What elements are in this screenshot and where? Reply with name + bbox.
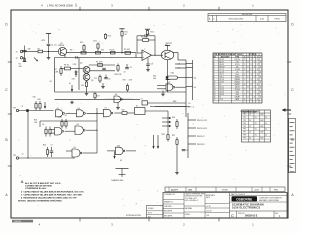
gate U7B — [51, 128, 76, 136]
resistor R6 horizontal — [61, 65, 83, 70]
svg-text:1-4: 1-4 — [188, 107, 191, 109]
svg-text:R19: R19 — [123, 79, 126, 81]
resistor R4 on bus — [110, 49, 116, 54]
sheet reference wire 2 — [150, 107, 191, 109]
svg-text:C2,C8: C2,C8 — [219, 71, 224, 73]
gate U5 — [56, 108, 77, 117]
svg-text:2V: 2V — [249, 137, 251, 139]
svg-text:5: 5 — [214, 69, 215, 71]
svg-text:R5 10K: R5 10K — [124, 49, 131, 51]
resistor R32 — [65, 115, 68, 129]
svg-text:TP1: TP1 — [243, 114, 246, 116]
svg-text:R2: R2 — [38, 48, 40, 50]
svg-text:8-1: 8-1 — [194, 87, 197, 89]
junction dot bus 3 — [94, 52, 96, 54]
wire Q1 emitter to loop bus — [64, 55, 66, 58]
svg-text:16: 16 — [214, 97, 216, 99]
diode CR1 — [72, 70, 78, 81]
svg-text:FINISH: FINISH — [185, 214, 190, 216]
svg-text:R27: R27 — [172, 135, 175, 137]
svg-text:1N914: 1N914 — [235, 76, 240, 78]
resistor R7 vertical left — [55, 66, 63, 76]
svg-text:C6: C6 — [151, 64, 153, 66]
resistor R31 — [59, 117, 64, 129]
svg-text:1MS: 1MS — [260, 114, 263, 116]
svg-text:74LS00: 74LS00 — [235, 89, 240, 91]
zone letters left — [5, 23, 8, 198]
svg-text:1K 5%: 1K 5% — [235, 64, 240, 66]
svg-text:PIN 28,29: PIN 28,29 — [197, 144, 205, 146]
signal arrows — [162, 117, 171, 127]
svg-text:6: 6 — [214, 71, 215, 73]
svg-text:Y1: Y1 — [141, 99, 143, 101]
svg-text:1MS: 1MS — [260, 120, 263, 122]
svg-text:SCALE: SCALE — [148, 207, 154, 210]
svg-text:7: 7 — [254, 92, 255, 94]
svg-text:3 CAPACITANCE VALUES ARE IN F: 3 CAPACITANCE VALUES ARE IN FARADS 100V,… — [21, 193, 82, 196]
svg-text:U7: U7 — [105, 107, 107, 109]
ground G2 — [70, 101, 74, 104]
wire R2 to Q1 — [49, 51, 59, 53]
svg-text:11: 11 — [22, 106, 24, 108]
svg-text:Q2: Q2 — [80, 62, 82, 64]
svg-text:SH 2: SH 2 — [148, 213, 152, 215]
svg-text:Q3: Q3 — [91, 80, 93, 82]
capacitor C2 on input — [22, 46, 31, 63]
svg-text:9: 9 — [251, 79, 252, 81]
ground at box bottom — [85, 92, 89, 95]
svg-text:CHASSIS GND: CHASSIS GND — [111, 179, 124, 182]
svg-text:3: 3 — [251, 89, 252, 91]
chassis ground symbol — [116, 169, 129, 178]
svg-text:R17: R17 — [97, 96, 100, 98]
svg-text:7: 7 — [214, 74, 215, 76]
svg-text:U6,U9: U6,U9 — [219, 94, 224, 96]
svg-text:1MS: 1MS — [260, 126, 263, 128]
svg-text:5V: 5V — [255, 123, 257, 125]
svg-text:11: 11 — [214, 84, 216, 86]
op-amp U1 — [142, 50, 152, 61]
svg-text:14: 14 — [214, 92, 216, 94]
zone letters right — [291, 23, 294, 198]
svg-text:R9: R9 — [95, 78, 97, 80]
svg-text:2 CAPACITANCE VALUES ARE IN M: 2 CAPACITANCE VALUES ARE IN MICROFARADS,… — [21, 190, 84, 193]
terminal TP1 — [13, 107, 19, 111]
svg-text:10: 10 — [124, 72, 126, 74]
connector bus vertical J3 — [187, 113, 189, 158]
resistor R23 — [34, 120, 47, 137]
svg-text:2V: 2V — [249, 120, 251, 122]
main signal bus wire — [66, 53, 136, 58]
connector branch 3 — [188, 136, 205, 138]
input jack J1 — [16, 50, 23, 53]
svg-text:7: 7 — [254, 76, 255, 78]
svg-text:REFERENCE DESIG: REFERENCE DESIG — [218, 54, 233, 56]
title block — [163, 193, 287, 219]
drawing border frame — [8, 7, 291, 222]
svg-text:C7: C7 — [51, 144, 53, 146]
resistor R21 vertical — [38, 99, 42, 111]
svg-text:50: 50 — [265, 135, 267, 137]
svg-text:50028-01-3: 50028-01-3 — [245, 215, 258, 218]
svg-text:8-4: 8-4 — [194, 78, 197, 80]
connector branch 2 — [188, 128, 207, 130]
svg-text:100: 100 — [153, 78, 156, 80]
svg-text:12: 12 — [214, 86, 216, 88]
ground below U2 — [161, 91, 165, 96]
svg-text:12: 12 — [22, 154, 24, 156]
lower bus wire — [55, 98, 141, 100]
connector tick 1 — [186, 63, 193, 65]
wire Q5 emitter down — [167, 60, 169, 71]
gate U10 — [107, 145, 136, 154]
svg-text:4: 4 — [254, 97, 255, 99]
svg-text:6: 6 — [251, 84, 252, 86]
source component for reference wires — [141, 99, 151, 105]
resistor R28 — [162, 133, 170, 142]
feedback loop wires — [55, 58, 187, 93]
auxiliary table — [242, 110, 271, 142]
resistor R24 — [42, 124, 51, 137]
capacitor C7 — [50, 144, 54, 157]
pin label 2-6 — [178, 64, 181, 66]
svg-text:P.M.N: P.M.N — [274, 18, 280, 20]
resistor R17 below loop — [94, 92, 100, 99]
svg-text:CR1,2: CR1,2 — [219, 76, 224, 78]
svg-text:13: 13 — [214, 89, 216, 91]
svg-text:OTHERWISE B+ ALL: OTHERWISE B+ ALL — [25, 187, 47, 190]
svg-text:5V: 5V — [255, 129, 257, 131]
lower feedback loop wire — [40, 108, 97, 153]
svg-text:U2,U3: U2,U3 — [219, 89, 224, 91]
svg-text:Q5: Q5 — [219, 84, 221, 86]
svg-text:7404: 7404 — [235, 92, 239, 94]
svg-text:REF: REF — [173, 101, 176, 103]
wire Q3 collector — [89, 70, 115, 72]
pin label 2-4 — [178, 68, 181, 70]
svg-text:R2,R7: R2,R7 — [219, 61, 224, 63]
svg-text:R8: R8 — [82, 85, 84, 87]
svg-text:U6: U6 — [78, 108, 80, 110]
sheet reference wire 1 — [150, 103, 191, 105]
svg-text:R31: R31 — [59, 117, 62, 119]
svg-text:Q1,Q4: Q1,Q4 — [219, 79, 224, 81]
svg-text:17: 17 — [214, 99, 216, 101]
svg-text:2V: 2V — [249, 132, 251, 134]
collector wire to connector — [173, 53, 187, 61]
svg-text:CR2: CR2 — [171, 73, 175, 75]
svg-text:LM741: LM741 — [235, 86, 240, 88]
junction dot bus 2 — [121, 52, 122, 53]
ground inside loop — [101, 83, 105, 88]
svg-text:4: 4 — [254, 66, 255, 68]
svg-text:TP6: TP6 — [243, 129, 246, 131]
svg-text:E: E — [257, 57, 258, 59]
svg-text:PIN 23,24,25: PIN 23,24,25 — [197, 128, 207, 130]
svg-text:REVISIONS: REVISIONS — [242, 14, 253, 16]
junction dot row1 — [96, 113, 97, 114]
diode CR2 indicator — [166, 71, 175, 92]
capacitor C10 marks — [102, 68, 106, 69]
svg-text:U4,U8: U4,U8 — [219, 92, 224, 94]
resistor R7b on wire — [96, 62, 103, 67]
wire R27 to ground — [176, 147, 178, 171]
svg-text:3: 3 — [251, 74, 252, 76]
svg-text:5V: 5V — [255, 117, 257, 119]
connector tick 3 — [186, 77, 193, 79]
svg-text:R15: R15 — [80, 42, 83, 44]
svg-text:TYPE: TYPE — [235, 57, 239, 59]
scale cells left of title block — [147, 206, 164, 219]
svg-text:10uF: 10uF — [235, 74, 239, 76]
drawing number row — [231, 211, 281, 218]
svg-text:NOTES: UNLESS OTHERWISE SPECIF: NOTES: UNLESS OTHERWISE SPECIFIED — [18, 201, 62, 203]
svg-text:2N2222: 2N2222 — [234, 81, 240, 83]
resistor R25 — [43, 144, 49, 157]
svg-text:C1 .01: C1 .01 — [51, 45, 57, 47]
gate U8 — [75, 124, 98, 134]
svg-text:Q2,Q3: Q2,Q3 — [219, 81, 224, 83]
svg-text:C8: C8 — [186, 150, 188, 152]
svg-text:J2: J2 — [16, 58, 18, 60]
connector rail B — [192, 60, 194, 100]
down arrow DA2 — [157, 135, 159, 149]
notes block — [18, 181, 84, 203]
svg-text:TP4: TP4 — [243, 123, 246, 125]
svg-text:9: 9 — [214, 79, 215, 81]
svg-text:R5,R9: R5,R9 — [219, 64, 224, 66]
svg-text:R22: R22 — [122, 110, 125, 112]
svg-text:R1,R4: R1,R4 — [219, 59, 224, 61]
svg-text:CHECKED: CHECKED — [164, 206, 173, 208]
svg-text:K1: K1 — [219, 97, 221, 99]
corner stamp — [12, 220, 33, 223]
svg-text:C: C — [251, 57, 252, 59]
svg-text:R13: R13 — [108, 36, 111, 38]
svg-text:3: 3 — [214, 64, 215, 66]
wire TP2 bus — [19, 157, 75, 159]
svg-text:OSBORNE: OSBORNE — [236, 198, 252, 202]
resistor R11 vertical — [119, 29, 127, 53]
capacitor C6 on wire — [22, 106, 29, 112]
arrow A2 — [44, 102, 46, 109]
svg-text:15: 15 — [214, 94, 216, 96]
zone numbers bottom — [39, 223, 255, 227]
ground G4 — [175, 171, 179, 174]
svg-text:5150 ELECTRONICS: 5150 ELECTRONICS — [232, 206, 260, 210]
svg-text:9: 9 — [251, 64, 252, 66]
capacitor C8 — [182, 150, 188, 153]
svg-text:PIN 26,27: PIN 26,27 — [197, 136, 205, 138]
svg-text:9: 9 — [251, 94, 252, 96]
resistor R13 with power bar — [145, 29, 154, 36]
connector tick 2 — [186, 67, 193, 69]
wire TP1 to U5 — [19, 110, 54, 112]
svg-text:1 2: 1 2 — [192, 106, 194, 108]
top margin document number label — [47, 4, 76, 8]
arrow at U10 input — [113, 152, 122, 162]
transistor Q5 — [161, 43, 174, 60]
ground below op-amp — [146, 65, 150, 71]
gate U7A — [104, 107, 123, 116]
svg-text:C9: C9 — [130, 67, 132, 69]
resistor R3a on bus — [70, 50, 86, 54]
ground below U4 — [116, 103, 120, 110]
svg-text:1: 1 — [214, 59, 215, 61]
drawing title text — [232, 203, 264, 210]
feedback capacitor C5 — [137, 33, 155, 37]
capacitor C6b below op-amp — [146, 58, 153, 66]
svg-text:TP7: TP7 — [243, 132, 246, 134]
capacitor C1 — [47, 44, 57, 51]
svg-text:F: F — [260, 57, 261, 59]
svg-text:U2: U2 — [168, 82, 170, 84]
reference designation table — [213, 53, 262, 103]
svg-text:2N2222: 2N2222 — [166, 43, 172, 45]
svg-text:TP1: TP1 — [13, 107, 16, 109]
svg-text:4 RESISTANCE VALUES ARE IN OH: 4 RESISTANCE VALUES ARE IN OHMS 1/4W, 5%… — [21, 196, 77, 199]
svg-text:.0050: .0050 — [254, 189, 260, 191]
resistor R27 — [172, 135, 178, 147]
svg-text:R6 1K: R6 1K — [64, 65, 70, 67]
svg-text:4: 4 — [214, 66, 215, 68]
svg-text:WT: WT — [148, 217, 151, 219]
svg-text:JA-1P1: JA-1P1 — [171, 188, 179, 191]
microfilm strip — [289, 119, 296, 173]
resistor R19 — [123, 79, 133, 92]
connector tick 4 — [186, 86, 193, 88]
feedback resistor R10 — [137, 36, 155, 55]
svg-text:R30 10K: R30 10K — [115, 74, 123, 76]
resistor R2 — [37, 48, 49, 53]
svg-text:3: 3 — [251, 59, 252, 61]
gate U9 — [66, 147, 97, 157]
transistor Q1 — [58, 43, 67, 56]
revision block — [208, 14, 286, 22]
input jack J2 — [16, 57, 25, 60]
svg-text:4-82: 4-82 — [260, 18, 264, 20]
svg-text:6: 6 — [251, 99, 252, 101]
svg-text:.05: .05 — [120, 160, 122, 162]
op-amp output wire — [152, 55, 163, 56]
resistor R3 on bus — [96, 49, 105, 54]
svg-text:7400: 7400 — [235, 94, 239, 96]
resistor R12b vertical — [80, 42, 85, 51]
wire Q2 collector — [89, 64, 115, 66]
svg-text:2N3904: 2N3904 — [58, 45, 64, 47]
svg-text:R13: R13 — [150, 32, 153, 34]
pin wire 1 — [175, 63, 186, 65]
svg-text:2V: 2V — [249, 114, 251, 116]
svg-text:1MS: 1MS — [260, 132, 263, 134]
svg-text:TP3: TP3 — [243, 120, 246, 122]
pin wire 2 — [175, 67, 186, 69]
svg-text:1 P/N | NO 04/08 C0000: 1 P/N | NO 04/08 C0000 — [47, 5, 74, 8]
svg-text:8: 8 — [214, 76, 215, 78]
svg-text:50: 50 — [265, 129, 267, 131]
svg-text:5V: 5V — [255, 135, 257, 137]
title block right section — [230, 193, 288, 211]
delay line DL1 row — [153, 75, 196, 80]
svg-text:R26: R26 — [172, 117, 175, 119]
junction dot bus 1 — [48, 51, 49, 52]
resistor R26 — [172, 117, 178, 129]
terminal TP2 — [13, 154, 23, 160]
svg-text:U4: U4 — [115, 94, 117, 96]
svg-text:CR1: CR1 — [72, 79, 76, 81]
connector branch 4 — [188, 144, 205, 146]
svg-text:1MS: 1MS — [260, 137, 263, 139]
svg-text:OSB-0111: OSB-0111 — [14, 221, 21, 223]
svg-text:05098: 05098 — [222, 189, 228, 191]
svg-text:C1,C4: C1,C4 — [219, 69, 224, 71]
svg-text:DIMENSIONS IN INCHES: DIMENSIONS IN INCHES — [185, 196, 203, 198]
svg-text:TP9: TP9 — [243, 137, 246, 139]
svg-text:U5: U5 — [57, 108, 59, 110]
svg-text:TP5: TP5 — [243, 126, 246, 128]
resistor R20 vertical — [33, 96, 38, 110]
svg-text:1-6: 1-6 — [188, 103, 191, 105]
svg-text:2N2907: 2N2907 — [234, 84, 240, 86]
svg-text:50: 50 — [265, 123, 267, 125]
wire J1 to R2 — [23, 51, 37, 53]
svg-text:C4: C4 — [108, 79, 110, 81]
resistor R12 vertical — [94, 41, 100, 52]
svg-text:PIN 20,21,22: PIN 20,21,22 — [197, 120, 207, 122]
svg-text:NOTED AS NOTED: NOTED AS NOTED — [126, 214, 142, 217]
svg-text:K1: K1 — [136, 106, 138, 108]
gate U2 — [157, 82, 196, 91]
svg-text:U1,U5: U1,U5 — [219, 86, 224, 88]
svg-text:4-12-82: 4-12-82 — [206, 210, 212, 212]
ground below input bus — [47, 52, 51, 60]
svg-text:R28: R28 — [162, 134, 165, 136]
power bar above Q5 — [165, 46, 170, 51]
svg-text:C5,C7: C5,C7 — [219, 74, 224, 76]
svg-text:UNLESS OTHERWISE SPEC: UNLESS OTHERWISE SPEC — [185, 194, 206, 196]
svg-text:.05: .05 — [236, 71, 238, 73]
svg-text:U9: U9 — [74, 147, 76, 149]
svg-text:TP2: TP2 — [243, 117, 246, 119]
svg-text:1: 1 — [254, 71, 255, 73]
svg-text:B: B — [248, 57, 249, 59]
svg-text:2V: 2V — [249, 126, 251, 128]
svg-text:+12V: +12V — [41, 40, 46, 42]
svg-text:4: 4 — [254, 81, 255, 83]
wire net to sheet 2 — [155, 106, 194, 108]
svg-text:R20: R20 — [38, 99, 41, 101]
svg-text:6: 6 — [251, 69, 252, 71]
svg-text:7-82: 7-82 — [206, 215, 209, 217]
transistor Q3 — [83, 74, 93, 82]
svg-text:10K 5%: 10K 5% — [234, 59, 240, 61]
power rail +12V — [41, 34, 52, 44]
svg-text:TP2: TP2 — [13, 155, 16, 157]
parts list strip — [165, 187, 285, 192]
capacitor C11 on loop top edge — [76, 56, 77, 59]
fold arrow marker — [282, 108, 291, 112]
relay K1 box — [135, 106, 169, 133]
svg-text:2: 2 — [213, 18, 214, 20]
svg-text:J1,J2: J1,J2 — [219, 99, 223, 101]
OSBORNE logo — [232, 196, 283, 202]
vertical wire left rail — [27, 110, 28, 159]
svg-text:.005.: .005. — [188, 189, 193, 191]
svg-text:R4 1K: R4 1K — [110, 49, 116, 51]
resistor R22 — [122, 110, 135, 115]
svg-text:D: D — [254, 57, 255, 59]
connector branch 1 — [188, 120, 207, 122]
